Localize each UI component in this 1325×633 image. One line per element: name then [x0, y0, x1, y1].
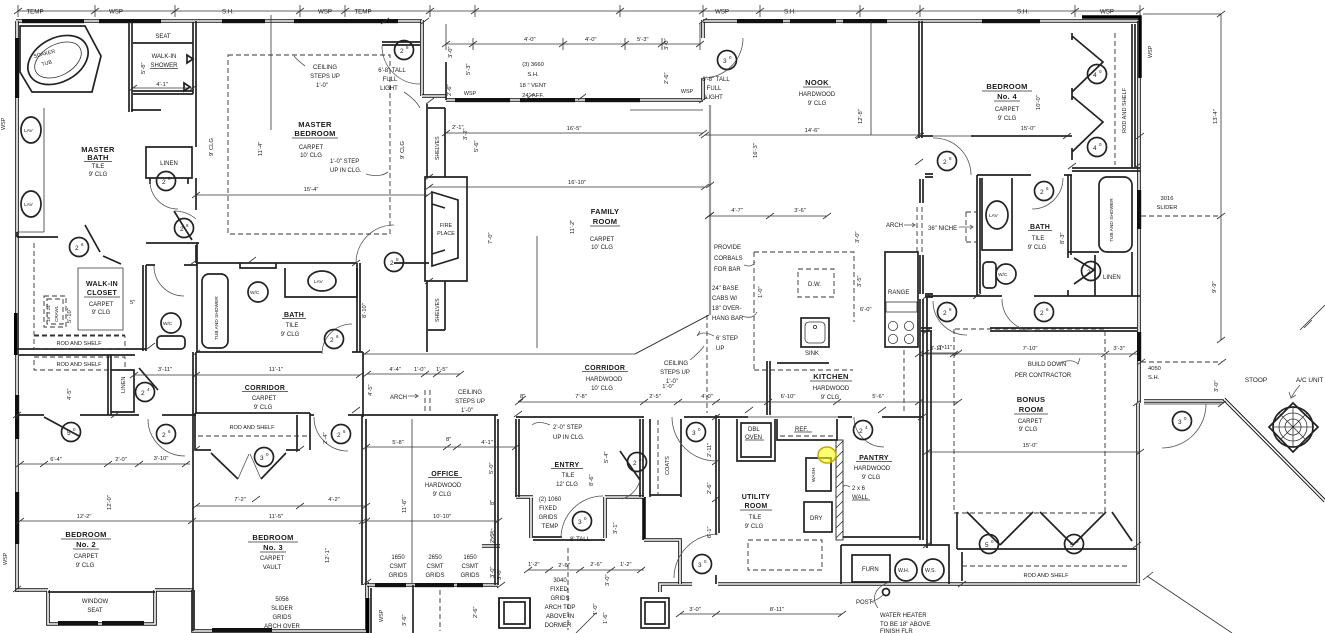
svg-text:18 " VENT: 18 " VENT	[519, 83, 547, 89]
door circle 2-8 bedroom4	[938, 152, 957, 171]
svg-text:3'-0": 3'-0"	[1214, 380, 1220, 392]
svg-text:3: 3	[1178, 419, 1182, 426]
svg-text:2: 2	[330, 337, 334, 344]
svg-text:36" NICHE: 36" NICHE	[928, 226, 957, 232]
window: bedroom4 north	[982, 19, 1040, 23]
svg-text:2650: 2650	[428, 555, 442, 561]
svg-text:7'-0": 7'-0"	[488, 232, 494, 244]
svg-text:2'-5": 2'-5"	[490, 531, 496, 543]
WSP heavy post: bedroom3 porch	[366, 598, 369, 633]
svg-text:W/C: W/C	[250, 290, 260, 296]
dim: utility south y614	[676, 611, 846, 617]
door bifold: corridor closet V	[211, 453, 286, 479]
dashed dim: 4050	[1141, 361, 1222, 363]
svg-text:BEDROOM: BEDROOM	[252, 533, 293, 542]
door circle 3-0 bonus east	[1173, 412, 1192, 431]
WSP heavy post: left wall	[14, 313, 18, 355]
svg-text:3: 3	[578, 519, 582, 526]
svg-text:5: 5	[1070, 542, 1074, 549]
exterior wall: entry porch window boxes	[499, 598, 669, 628]
exterior wall: stoop top wall	[1144, 399, 1224, 403]
appliance: ref box	[777, 419, 837, 440]
svg-text:8'-3": 8'-3"	[1060, 232, 1066, 244]
svg-text:3: 3	[698, 562, 702, 569]
wall: bath right north	[977, 174, 1072, 176]
wc master	[161, 313, 181, 333]
window: 4050 SH right wall	[1137, 332, 1141, 361]
door circle 4-0 bed4 closet lower	[1088, 138, 1107, 157]
svg-text:9' CLG: 9' CLG	[209, 138, 215, 156]
svg-text:DRY: DRY	[810, 516, 823, 522]
door leaf: bed2 closet bifold	[44, 417, 79, 436]
soaker tub ellipses	[19, 26, 96, 95]
dashed dim: 3016 slider	[1141, 215, 1221, 217]
exterior wall: entry east side	[605, 497, 680, 584]
svg-text:HARDWOOD: HARDWOOD	[799, 92, 836, 98]
dim: right vertical 13'-4" 9'-9"	[1143, 11, 1225, 343]
svg-text:No. 4: No. 4	[997, 92, 1017, 101]
svg-text:LINEN: LINEN	[1103, 275, 1121, 281]
svg-text:1'-2": 1'-2"	[528, 562, 540, 568]
svg-text:PROVIDE: PROVIDE	[714, 245, 741, 251]
wall: master bath vanity counter	[17, 108, 44, 232]
svg-text:2: 2	[859, 428, 863, 435]
svg-text:STEPS UP: STEPS UP	[310, 74, 340, 80]
svg-text:10' CLG: 10' CLG	[591, 386, 613, 392]
svg-text:PANTRY: PANTRY	[859, 455, 889, 462]
wall: bonus north	[921, 328, 1137, 331]
door arc: linen master	[150, 181, 178, 209]
svg-text:1650: 1650	[391, 555, 405, 561]
window: bedroom3 south	[212, 628, 272, 632]
wall: bath right west	[977, 175, 980, 296]
svg-text:LAV: LAV	[989, 213, 999, 219]
exterior wall: bedroom3 south	[193, 582, 367, 631]
svg-text:FULL: FULL	[707, 86, 722, 92]
svg-text:2'-6": 2'-6"	[664, 72, 670, 84]
svg-text:12'-0": 12'-0"	[107, 495, 113, 510]
dashed: arch hall	[425, 390, 430, 415]
wall: west wall of corridor/bed3	[193, 352, 196, 631]
dim: entry y570	[524, 567, 645, 573]
svg-text:FINISH FLR: FINISH FLR	[880, 629, 913, 633]
exterior wall: top notch at master bedroom NE	[420, 20, 424, 96]
wall: bed2 closets north	[19, 355, 135, 415]
svg-text:UTILITY: UTILITY	[742, 494, 771, 501]
door arc: nook west	[703, 38, 743, 78]
dim: office y521	[362, 518, 502, 524]
svg-text:2'-6": 2'-6"	[473, 606, 479, 618]
dim: bonus 15'-0"	[923, 449, 1144, 455]
tick marks top dim	[14, 8, 1144, 14]
svg-text:No. 2: No. 2	[76, 540, 96, 549]
svg-text:ARCH TOP: ARCH TOP	[545, 605, 576, 611]
svg-text:ROOM: ROOM	[745, 503, 768, 510]
wall: entry east / coats	[640, 419, 681, 497]
svg-text:LIGHT: LIGHT	[705, 95, 723, 101]
wc bath right	[996, 264, 1016, 284]
svg-text:CARPET: CARPET	[590, 237, 615, 243]
door circle 5-0 bonus closet left	[980, 535, 999, 554]
svg-text:HANG BAR: HANG BAR	[712, 316, 744, 322]
svg-text:9' CLG: 9' CLG	[808, 101, 827, 107]
svg-text:3040: 3040	[553, 578, 567, 584]
door arc: bonus east	[1162, 404, 1206, 448]
svg-text:S.H.: S.H.	[1017, 9, 1029, 16]
svg-text:9' CLG: 9' CLG	[1028, 245, 1047, 251]
svg-text:5'-0": 5'-0"	[489, 462, 495, 474]
svg-text:WASH: WASH	[811, 467, 817, 482]
range	[885, 252, 918, 347]
wall: bed2 closets south w/ openings	[17, 415, 196, 419]
exterior wall: office porch	[371, 585, 413, 633]
svg-text:4'-0": 4'-0"	[585, 37, 597, 43]
exterior wall: notch verticals family NW	[445, 62, 447, 100]
window: window seat south	[58, 621, 98, 625]
svg-text:W.H.: W.H.	[898, 568, 909, 574]
svg-text:2: 2	[337, 432, 341, 439]
svg-text:GRIDS: GRIDS	[425, 573, 444, 579]
svg-text:6'-1": 6'-1"	[707, 526, 713, 538]
door bifold: bed4 closet zigzag	[1072, 33, 1103, 160]
svg-text:2'-1": 2'-1"	[452, 125, 464, 131]
dashed: walk-in closet rods	[34, 243, 125, 335]
door circle 5-0 bonus closet right	[1065, 535, 1084, 554]
door circle 2-6 bedroom2	[157, 425, 176, 444]
wall: kitchen west	[767, 361, 770, 415]
svg-text:5'-10": 5'-10"	[67, 308, 73, 323]
svg-text:BEDROOM: BEDROOM	[294, 129, 335, 138]
exterior wall: stoop diagonal	[1224, 399, 1325, 501]
dashed crawl box	[44, 296, 66, 327]
wall: corridor south segment east	[310, 414, 363, 416]
svg-text:12' CLG: 12' CLG	[556, 482, 578, 488]
svg-text:11'-5": 11'-5"	[269, 514, 283, 520]
svg-text:FULL: FULL	[383, 77, 398, 83]
svg-text:ROD AND SHELF: ROD AND SHELF	[56, 362, 102, 368]
dim: bed3 y506	[192, 503, 370, 509]
dashed: porch office	[439, 590, 441, 631]
lav master south	[21, 191, 41, 217]
svg-text:WINDOW: WINDOW	[82, 599, 109, 605]
svg-text:1'-0": 1'-0"	[316, 83, 328, 89]
exterior wall: left wall	[15, 21, 19, 592]
svg-text:NOOK: NOOK	[805, 78, 829, 87]
dashed: bonus closet rod	[962, 565, 1130, 567]
svg-text:COATS: COATS	[665, 456, 671, 475]
svg-text:9' CLG: 9' CLG	[862, 475, 881, 481]
svg-text:9' CLG: 9' CLG	[254, 405, 273, 411]
svg-text:5'-8": 5'-8"	[141, 62, 147, 74]
door circle 3-0 corridor closet	[255, 448, 274, 467]
wall: entry west	[516, 419, 519, 497]
svg-text:W/C: W/C	[998, 272, 1008, 278]
wall: hall kitchen stub	[925, 294, 933, 297]
svg-text:CORRIDOR: CORRIDOR	[245, 385, 286, 392]
svg-text:14'-6": 14'-6"	[805, 128, 820, 134]
svg-text:12'-8": 12'-8"	[858, 109, 864, 124]
dim: office y447	[362, 444, 520, 450]
dashed ceiling: master bedroom	[228, 55, 390, 234]
svg-text:15'-4": 15'-4"	[304, 187, 319, 193]
svg-text:1'-0": 1'-0"	[461, 408, 473, 414]
svg-text:4'-0": 4'-0"	[524, 37, 536, 43]
svg-text:LIGHT: LIGHT	[380, 86, 398, 92]
dashed: utility counter	[748, 540, 822, 570]
svg-text:7'-8": 7'-8"	[575, 394, 587, 400]
svg-text:10' CLG: 10' CLG	[300, 153, 322, 159]
svg-text:UP IN CLG.: UP IN CLG.	[330, 168, 362, 174]
wall: corridor north (bath2 south)	[196, 352, 363, 417]
svg-text:SHELVES: SHELVES	[435, 298, 441, 322]
svg-text:2: 2	[1087, 269, 1091, 276]
svg-text:7'-2": 7'-2"	[234, 497, 246, 503]
svg-text:BATH: BATH	[284, 312, 304, 319]
dim line top	[18, 5, 1140, 17]
svg-text:10'-10": 10'-10"	[433, 514, 451, 520]
svg-text:CSMT: CSMT	[427, 564, 444, 570]
svg-text:9' CLG: 9' CLG	[92, 310, 111, 316]
wall: linen right bath	[1095, 252, 1132, 296]
svg-text:TEMP: TEMP	[26, 9, 43, 16]
SECTION: doors	[62, 38, 1207, 578]
svg-text:WALK-IN: WALK-IN	[86, 281, 118, 288]
svg-text:1'-0": 1'-0"	[666, 379, 678, 385]
svg-text:ENTRY: ENTRY	[555, 462, 580, 469]
exterior wall: bonus closet right + bottom	[957, 403, 1140, 585]
svg-text:CARPET: CARPET	[299, 145, 324, 151]
svg-text:TILE: TILE	[749, 515, 762, 521]
door arc: bedroom2	[148, 419, 185, 456]
svg-text:BONUS: BONUS	[1017, 395, 1046, 404]
svg-text:3'-1": 3'-1"	[613, 522, 619, 534]
door circle 3-0 utility	[693, 555, 712, 574]
exterior wall: entry door sill	[533, 537, 605, 540]
ticks: misc wall crossings	[13, 18, 1141, 592]
svg-text:FAMILY: FAMILY	[591, 207, 620, 216]
step diagonal family SE	[635, 315, 709, 354]
svg-text:CEILING: CEILING	[664, 361, 688, 367]
svg-text:9' CLG: 9' CLG	[400, 141, 406, 159]
svg-text:8'-6": 8'-6"	[589, 474, 595, 486]
wall: walk-in closet right	[143, 265, 146, 351]
dashed: corridor closet rod	[198, 435, 307, 437]
svg-text:SEAT: SEAT	[87, 608, 103, 614]
svg-text:2: 2	[162, 432, 166, 439]
svg-text:2'-6": 2'-6"	[558, 563, 570, 569]
door circle 2-4 linen2	[136, 383, 155, 402]
svg-text:5'-6": 5'-6"	[872, 394, 884, 400]
svg-text:ROD AND SHELF: ROD AND SHELF	[56, 341, 102, 347]
door arc: hall to kitchen	[933, 301, 967, 335]
svg-text:DORMER: DORMER	[545, 623, 572, 629]
svg-text:8": 8"	[490, 500, 496, 505]
svg-text:UP: UP	[716, 346, 724, 352]
svg-text:S.H.: S.H.	[784, 9, 796, 16]
dim: 3'-11" near range	[921, 350, 962, 356]
svg-text:24" BASE: 24" BASE	[712, 286, 738, 292]
svg-text:KITCHEN: KITCHEN	[813, 372, 848, 381]
office porch window	[499, 598, 530, 628]
door arc: entry front	[561, 496, 603, 538]
svg-text:5'-4": 5'-4"	[604, 451, 610, 463]
door circle 2-4 pantry	[854, 421, 873, 440]
wall: pantry east	[843, 299, 923, 540]
wall: bath south hall band	[925, 295, 1140, 297]
exterior wall: family room north window wall	[422, 96, 703, 100]
wall: office north	[362, 415, 498, 585]
window: family north windows	[455, 98, 510, 102]
svg-text:13'-4": 13'-4"	[1213, 109, 1219, 124]
svg-text:S.H.: S.H.	[1148, 375, 1160, 381]
svg-text:2: 2	[400, 48, 404, 55]
svg-text:TUB AND SHOWER: TUB AND SHOWER	[1109, 198, 1115, 242]
svg-text:W/C: W/C	[163, 321, 173, 327]
svg-text:ARCH OVER: ARCH OVER	[264, 624, 300, 630]
svg-text:2: 2	[75, 245, 79, 252]
svg-text:ROOM: ROOM	[593, 217, 618, 226]
svg-text:9' CLG: 9' CLG	[433, 492, 452, 498]
svg-text:3016: 3016	[1161, 196, 1174, 202]
svg-text:6'-4": 6'-4"	[50, 457, 62, 463]
door arc: master bedroom south	[356, 225, 394, 263]
svg-text:2: 2	[162, 179, 166, 186]
svg-text:2'-6": 2'-6"	[707, 482, 713, 494]
svg-text:WSP: WSP	[1, 117, 7, 130]
svg-text:No. 3: No. 3	[263, 543, 283, 552]
svg-text:HARDWOOD: HARDWOOD	[813, 386, 850, 392]
svg-text:3'-0": 3'-0"	[664, 38, 670, 50]
diagonal: bottom left corner porch line	[576, 613, 596, 633]
appliance: dbl oven box	[737, 419, 775, 461]
svg-text:WSP: WSP	[1148, 45, 1154, 58]
kitchen island dashed counter	[754, 252, 854, 370]
svg-text:8' TALL: 8' TALL	[570, 537, 591, 543]
door arc: hall near office	[314, 417, 348, 451]
svg-text:4'-1": 4'-1"	[481, 440, 493, 446]
svg-text:WSP: WSP	[464, 91, 477, 97]
svg-text:HARDWOOD: HARDWOOD	[586, 377, 623, 383]
svg-text:(2) 1060: (2) 1060	[539, 497, 562, 503]
svg-text:3'-2": 3'-2"	[463, 128, 469, 140]
dashed: niche	[966, 212, 977, 242]
door circle 3-0 entry	[573, 512, 592, 531]
svg-text:11'-1": 11'-1"	[269, 367, 283, 373]
dw dashed	[798, 269, 834, 297]
svg-text:9' CLG: 9' CLG	[89, 172, 108, 178]
svg-text:1'-0" STEP: 1'-0" STEP	[330, 159, 359, 165]
wall: office east	[495, 415, 498, 585]
svg-text:CLOSET: CLOSET	[87, 290, 118, 297]
svg-text:GRIDS: GRIDS	[272, 615, 291, 621]
dashed rod shelf box: bed2 closet	[34, 357, 125, 370]
svg-text:9' CLG: 9' CLG	[281, 332, 300, 338]
svg-text:6' STEP: 6' STEP	[716, 336, 738, 342]
svg-text:2'-0" STEP: 2'-0" STEP	[553, 425, 582, 431]
diagonal: top right garage corner	[1300, 305, 1325, 330]
window: office south row	[375, 583, 406, 587]
svg-text:15'-0": 15'-0"	[1023, 443, 1038, 449]
wall: 2x6 hatched	[836, 440, 843, 540]
wall: family west shelves column	[427, 104, 445, 177]
svg-text:CARPET: CARPET	[260, 556, 285, 562]
svg-text:4: 4	[1093, 72, 1097, 79]
dim: kitchen 4'-7" 3'-6"	[705, 213, 831, 219]
dashed: family ceiling step	[706, 315, 708, 413]
door arc: bath right	[1032, 178, 1063, 209]
dashed ceiling: bonus room	[954, 329, 1105, 513]
svg-text:POST-: POST-	[856, 600, 874, 606]
svg-text:5'-6": 5'-6"	[474, 140, 480, 152]
svg-text:FIXED: FIXED	[550, 587, 568, 593]
svg-text:ROOM: ROOM	[1019, 405, 1044, 414]
wall: stoop inner line	[1144, 403, 1222, 405]
svg-text:3'-5": 3'-5"	[857, 275, 863, 287]
svg-text:CARPET: CARPET	[252, 396, 277, 402]
door circle 5-0 bed2 closet	[62, 423, 81, 442]
svg-text:3'-10": 3'-10"	[154, 456, 169, 462]
svg-text:CARPET: CARPET	[995, 107, 1020, 113]
svg-text:5056: 5056	[275, 597, 289, 603]
door leaf + circle 2-6 entry east	[620, 451, 640, 480]
svg-text:CSMT: CSMT	[390, 564, 407, 570]
svg-text:2'-0": 2'-0"	[115, 457, 127, 463]
window: left wall master bath	[15, 38, 19, 98]
svg-text:4'-4": 4'-4"	[389, 367, 401, 373]
wall: kitchen/hall divider	[920, 179, 923, 294]
svg-text:6'-8" TALL: 6'-8" TALL	[378, 68, 406, 74]
svg-text:16'-10": 16'-10"	[568, 180, 586, 186]
svg-text:SEAT: SEAT	[155, 34, 171, 40]
svg-text:9' CLG: 9' CLG	[998, 116, 1017, 122]
svg-text:24" AFF.: 24" AFF.	[522, 93, 544, 99]
svg-text:ROD AND SHELF: ROD AND SHELF	[229, 425, 275, 431]
dashed: entry dormer center	[567, 548, 569, 630]
svg-text:3'-6": 3'-6"	[402, 614, 408, 626]
wall: office thin divider	[411, 419, 413, 583]
svg-text:WSP: WSP	[109, 9, 123, 16]
svg-text:TILE: TILE	[562, 473, 575, 479]
lav master north	[21, 117, 41, 143]
dashed: bed4 closet rod	[1114, 33, 1116, 165]
appliance: furn box	[852, 555, 890, 582]
svg-text:MASTER: MASTER	[298, 120, 332, 129]
exterior wall: bedroom2 south + window seat bump	[16, 590, 194, 624]
svg-text:3: 3	[723, 58, 727, 65]
svg-text:2'-4": 2'-4"	[323, 432, 329, 444]
svg-text:STEPS UP: STEPS UP	[455, 399, 485, 405]
door circle 2-8 master bedroom south	[385, 253, 404, 272]
WSP heavy post: top right corner	[1082, 17, 1140, 78]
tub and shower right	[1099, 177, 1132, 252]
svg-text:HARDWOOD: HARDWOOD	[854, 466, 891, 472]
svg-text:SINK: SINK	[805, 351, 819, 357]
wall: nook/bed4 divider	[919, 21, 922, 138]
svg-text:5: 5	[985, 542, 989, 549]
svg-text:3'-3": 3'-3"	[1113, 346, 1125, 352]
svg-text:8'-10": 8'-10"	[362, 303, 368, 318]
svg-text:2: 2	[390, 260, 394, 267]
svg-text:ROD AND SHELF: ROD AND SHELF	[1023, 573, 1069, 579]
window: top wall master bedroom	[294, 19, 398, 23]
svg-text:TILE: TILE	[286, 323, 299, 329]
door circle 2-8 hall kitchen	[938, 303, 957, 322]
svg-text:CSMT: CSMT	[462, 564, 479, 570]
svg-text:WSP: WSP	[3, 552, 9, 565]
svg-text:2'-11": 2'-11"	[707, 443, 713, 457]
svg-text:STOOP: STOOP	[1245, 377, 1267, 384]
svg-text:3'-11": 3'-11"	[930, 346, 944, 352]
